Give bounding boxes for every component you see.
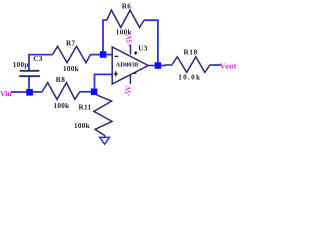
svg-text:100p: 100p [13,61,29,69]
svg-text:U3: U3 [138,45,147,53]
svg-text:-5V: -5V [126,86,133,97]
svg-text:100k: 100k [74,122,90,130]
svg-text:R18: R18 [183,49,197,57]
svg-text:R11: R11 [78,103,91,111]
svg-text:R8: R8 [56,76,65,84]
svg-text:R6: R6 [122,3,131,11]
svg-text:100k: 100k [63,65,79,73]
svg-text:10.0k: 10.0k [178,73,201,81]
svg-text:C3: C3 [33,55,42,63]
svg-text:+5V: +5V [127,35,134,47]
svg-text:R7: R7 [66,39,75,47]
svg-text:Vin: Vin [0,89,11,98]
svg-text:100k: 100k [54,102,70,110]
svg-text:AD8038: AD8038 [115,62,138,69]
svg-text:Vout: Vout [220,61,237,70]
